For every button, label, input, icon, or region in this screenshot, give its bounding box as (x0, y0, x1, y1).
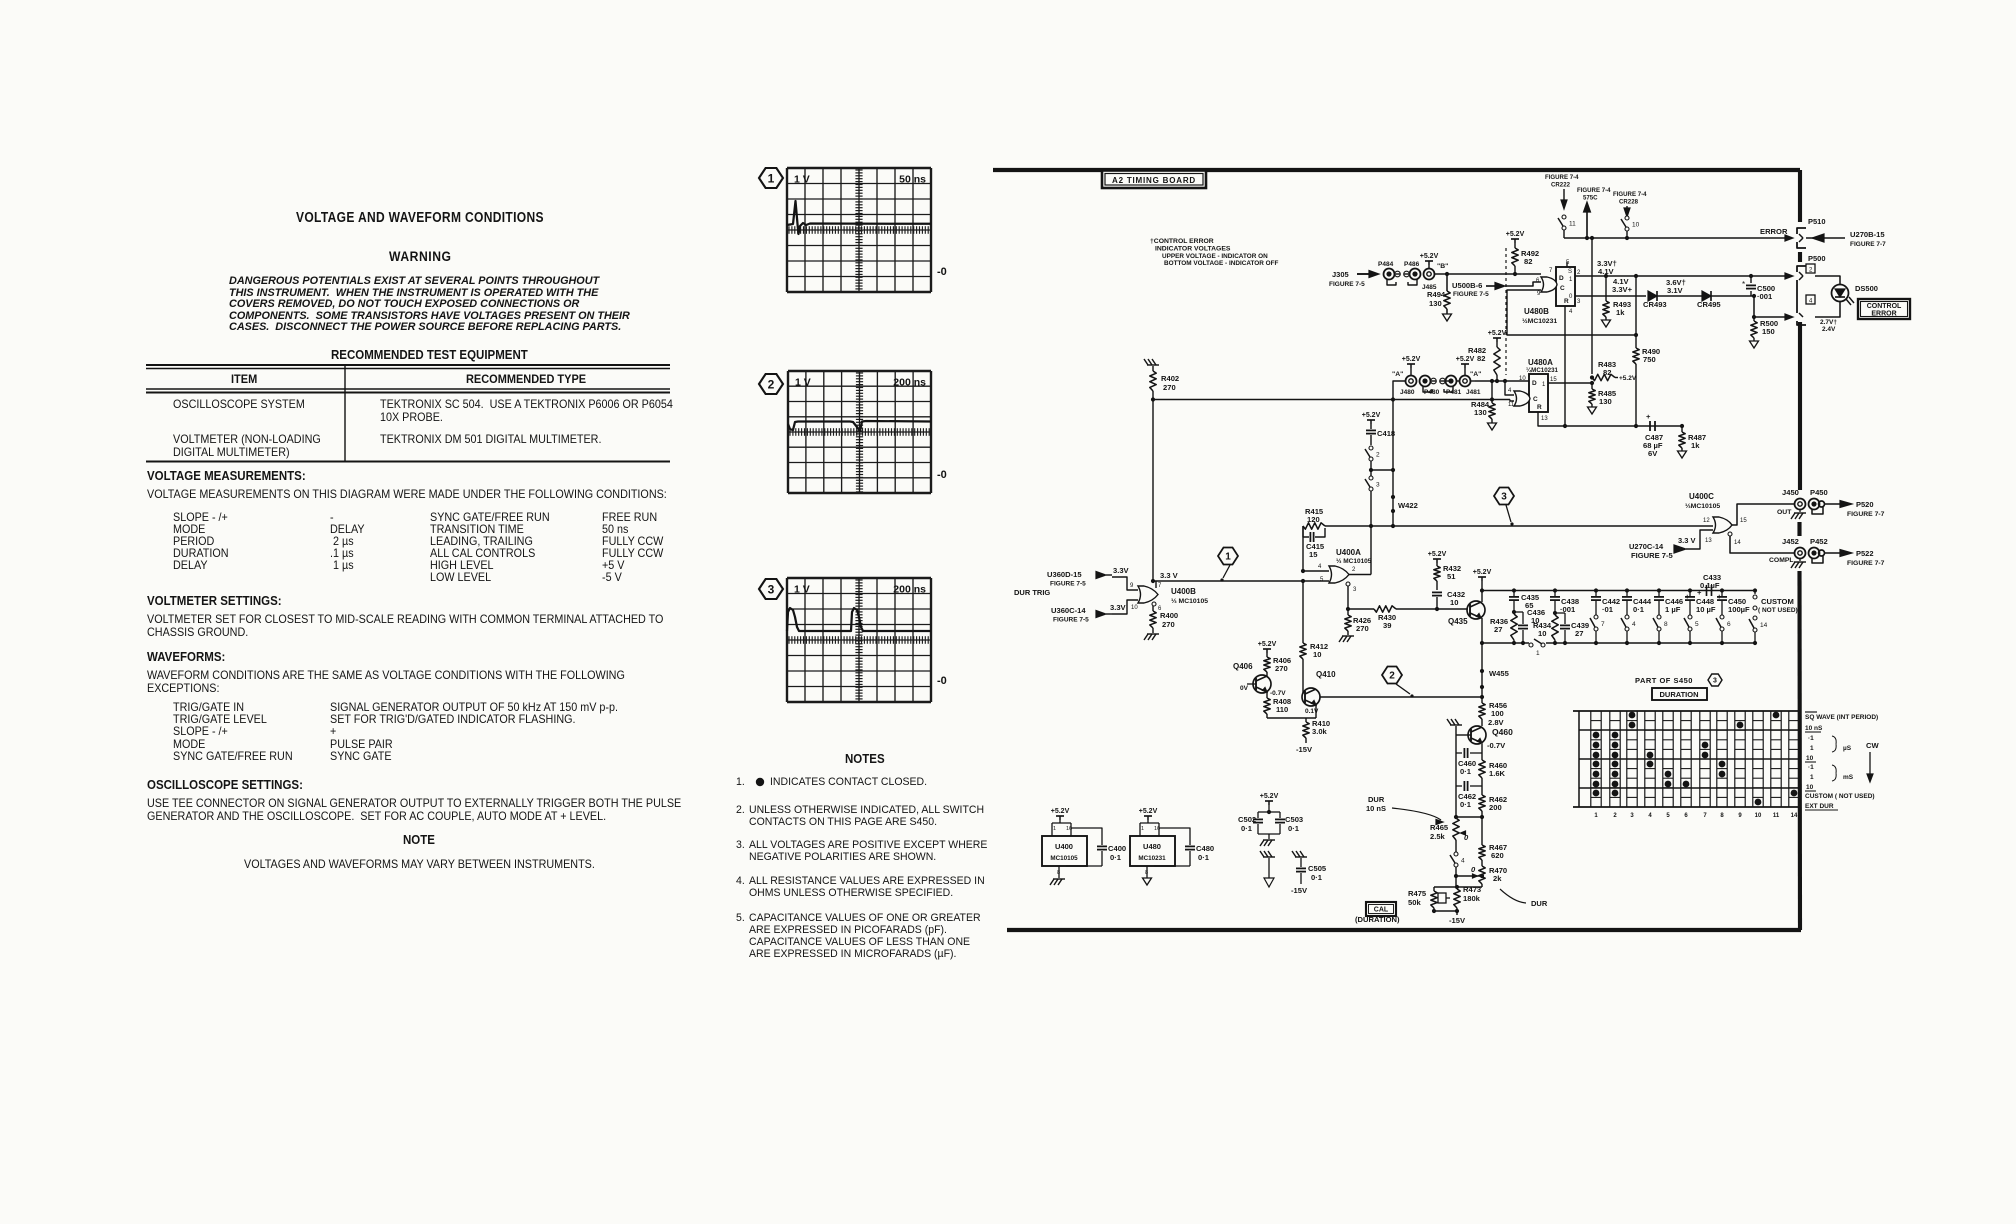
svg-text:Q410: Q410 (1316, 670, 1336, 679)
wire ERROR to P510 (1564, 237, 1786, 239)
svg-text:-15V: -15V (1449, 916, 1466, 925)
switch matrix S450 (1573, 710, 1800, 712)
waveform exceptions list (173, 702, 244, 714)
svg-text:+5.2V: +5.2V (1456, 356, 1475, 363)
svg-text:-0: -0 (937, 675, 947, 687)
svg-text:-0: -0 (937, 266, 947, 278)
capacitor C505 0.1 (1292, 851, 1296, 857)
capacitor C462 0.1 (1456, 785, 1462, 787)
svg-text:7: 7 (1703, 813, 1707, 819)
svg-text:R475: R475 (1408, 889, 1427, 898)
svg-text:R473: R473 (1463, 885, 1481, 894)
svg-text:100µF: 100µF (1728, 605, 1750, 614)
svg-text:U500B-6: U500B-6 (1452, 281, 1482, 290)
or-gate U400B (1138, 586, 1158, 603)
connector pair P480 P481 (1420, 376, 1431, 387)
potentiometer R470 2k (1479, 866, 1485, 884)
svg-text:51: 51 (1447, 572, 1456, 581)
resistor R410 3.0k (1305, 718, 1307, 722)
gate complement pin 14 (1728, 532, 1732, 536)
note 1 bullet (756, 778, 764, 786)
svg-text:1: 1 (1594, 813, 1598, 819)
svg-text:0.1V: 0.1V (1305, 708, 1319, 715)
svg-text:+5.2V: +5.2V (1428, 551, 1447, 558)
wire CR495 to C500 node (1711, 295, 1754, 297)
svg-text:7: 7 (1158, 583, 1162, 589)
svg-text:5: 5 (1666, 813, 1670, 819)
svg-text:⅓MC10105: ⅓MC10105 (1685, 503, 1720, 510)
jumper W422 (1392, 400, 1394, 527)
resistor R487 1k (1681, 426, 1683, 432)
svg-text:150: 150 (1762, 327, 1775, 336)
svg-text:"A": "A" (1470, 371, 1481, 378)
svg-text:2: 2 (768, 377, 775, 391)
svg-text:1: 1 (1810, 745, 1814, 752)
signal arrow P522 FIGURE 7-7 (1825, 552, 1840, 554)
svg-text:ERROR: ERROR (1871, 311, 1896, 318)
warning paragraph (229, 276, 599, 287)
svg-text:120: 120 (1307, 515, 1320, 524)
svg-text:R: R (1537, 404, 1542, 411)
connector J485 (1424, 269, 1435, 280)
svg-text:27: 27 (1575, 629, 1583, 638)
svg-text:3.3 V: 3.3 V (1678, 536, 1696, 545)
svg-text:3.0k: 3.0k (1312, 727, 1328, 736)
svg-text:CONTROL: CONTROL (1867, 303, 1902, 310)
svg-text:1: 1 (768, 171, 775, 185)
IC U480 MC10231 (bypass) (1147, 820, 1149, 823)
capacitor C418 (1370, 424, 1372, 429)
schematic frame: bottom border (1007, 928, 1801, 932)
svg-text:+5.2V: +5.2V (1420, 253, 1439, 260)
jumper W455 (1481, 643, 1483, 697)
svg-text:2.7V†: 2.7V† (1820, 319, 1837, 326)
svg-text:130: 130 (1474, 408, 1487, 417)
heading VOLTMETER SETTINGS (147, 595, 282, 608)
svg-text:0·1: 0·1 (1241, 824, 1253, 833)
svg-text:EXT DUR: EXT DUR (1805, 803, 1834, 810)
svg-text:FIGURE 7-7: FIGURE 7-7 (1847, 560, 1885, 567)
svg-text:P452: P452 (1810, 537, 1828, 546)
wire U480B pin2 output (1575, 275, 1790, 277)
note 5 (736, 913, 745, 924)
svg-text:11: 11 (1773, 813, 1780, 819)
svg-text:620: 620 (1491, 851, 1504, 860)
svg-text:+5.2V: +5.2V (1619, 375, 1637, 382)
svg-text:1 V: 1 V (794, 174, 810, 186)
svg-text:2k: 2k (1493, 874, 1502, 883)
svg-text:1: 1 (1225, 552, 1231, 563)
capacitor C500 .001 (1750, 276, 1752, 283)
svg-text:4: 4 (1318, 564, 1322, 570)
svg-text:U480B: U480B (1524, 307, 1549, 316)
svg-text:0.1µF: 0.1µF (1700, 581, 1720, 590)
switch contact 10 (1625, 216, 1629, 220)
svg-text:6: 6 (1727, 621, 1731, 628)
svg-text:2: 2 (1376, 452, 1380, 459)
svg-text:C: C (1560, 285, 1565, 292)
svg-text:6V: 6V (1648, 449, 1658, 458)
svg-text:6: 6 (1684, 813, 1688, 819)
net: vertical from ERROR wire to R483 node (1591, 238, 1593, 374)
wire pin2 output (1349, 574, 1371, 576)
switch contact 2 (1369, 446, 1373, 450)
svg-text:C: C (1533, 396, 1538, 403)
svg-text:+5.2V: +5.2V (1488, 330, 1507, 337)
capacitor C502 0.1 (1268, 805, 1270, 812)
svg-text:10: 10 (1450, 598, 1458, 607)
resistor R467 620 (1481, 817, 1483, 845)
ground (R484) (1488, 423, 1497, 430)
svg-text:1: 1 (1810, 774, 1814, 781)
capacitor C503 0.1 (1269, 811, 1280, 813)
svg-text:PART OF S450: PART OF S450 (1635, 676, 1693, 685)
waveform scope 2 (787, 371, 789, 493)
note 3 (736, 840, 745, 851)
svg-text:"A": "A" (1392, 371, 1403, 378)
svg-text:U360D-15: U360D-15 (1047, 570, 1082, 579)
svg-text:MC10231: MC10231 (1138, 855, 1166, 862)
svg-text:0·1: 0·1 (1198, 853, 1210, 862)
wire bottom rail (1480, 641, 1484, 645)
wire Q410 base from Q406 (1267, 696, 1305, 698)
svg-text:INDICATOR VOLTAGES: INDICATOR VOLTAGES (1155, 246, 1231, 253)
capacitor C442 ·01 (1595, 591, 1597, 597)
svg-text:100: 100 (1491, 709, 1504, 718)
svg-text:C502: C502 (1238, 815, 1256, 824)
capacitor C435 65 (1513, 591, 1515, 597)
svg-text:12: 12 (1703, 518, 1710, 524)
switch contact 4 (1625, 615, 1629, 619)
svg-text:82: 82 (1477, 354, 1485, 363)
svg-text:11: 11 (1569, 221, 1576, 228)
waveform scope 3 (786, 578, 788, 702)
resistor R436 zigzag (1511, 614, 1517, 640)
capacitor C487 68uF (1649, 421, 1651, 431)
signal arrow U270B-15 FIGURE 7-7 (1806, 237, 1845, 239)
svg-text:"B": "B" (1437, 263, 1448, 270)
resistor R430 39 (1374, 606, 1396, 612)
svg-text:3: 3 (1713, 678, 1717, 685)
svg-text:10: 10 (1806, 784, 1814, 791)
svg-text:15: 15 (1740, 518, 1747, 524)
svg-text:+5.2V: +5.2V (1258, 641, 1277, 648)
svg-text:J305: J305 (1332, 270, 1349, 279)
svg-text:1k: 1k (1691, 441, 1700, 450)
svg-text:4: 4 (1648, 813, 1652, 819)
schematic frame: right border (board edge, dashed at connectors) (1798, 170, 1802, 222)
svg-text:U400A: U400A (1336, 548, 1361, 557)
svg-text:+5.2V: +5.2V (1506, 231, 1525, 238)
svg-text:ERROR: ERROR (1760, 227, 1788, 236)
wire R430 to Q435 base (1396, 608, 1468, 610)
svg-text:Q435: Q435 (1448, 617, 1468, 626)
svg-text:270: 270 (1275, 664, 1288, 673)
svg-text:2.5k: 2.5k (1430, 832, 1446, 841)
wire feedback node W422 to R415 (1325, 525, 1371, 527)
svg-text:J450: J450 (1782, 488, 1799, 497)
heading OSCILLOSCOPE SETTINGS (147, 779, 303, 792)
svg-text:0·1: 0·1 (1460, 767, 1472, 776)
capacitor C436 10 (1514, 611, 1523, 613)
wire U500B-6 to U480B clock gate (1505, 282, 1541, 286)
wire pin3 to R430 (1348, 586, 1374, 609)
wire Q435 emitter down (1481, 618, 1483, 643)
chassis ground (R426) (1339, 636, 1343, 642)
switch contact 1 (in rail) (1529, 643, 1533, 647)
wire U480A pin15 output (1548, 382, 1592, 384)
svg-text:C480: C480 (1196, 844, 1214, 853)
wire R470 bottom to R473 (1457, 886, 1482, 888)
switch contact 6 (1720, 615, 1724, 619)
svg-text:4.1V: 4.1V (1598, 267, 1615, 276)
capacitor C438 .001 (1554, 591, 1556, 597)
svg-text:270: 270 (1162, 620, 1175, 629)
svg-text:7: 7 (1601, 621, 1605, 628)
svg-text:†CONTROL ERROR: †CONTROL ERROR (1150, 238, 1214, 245)
wire R402 node down to U400B junction (1152, 400, 1154, 582)
heading RECOMMENDED TEST EQUIPMENT (331, 349, 528, 362)
svg-text:W455: W455 (1489, 669, 1510, 678)
svg-text:0·1: 0·1 (1110, 853, 1122, 862)
svg-text:DUR: DUR (1368, 795, 1385, 804)
svg-text:W422: W422 (1398, 501, 1418, 510)
svg-text:10: 10 (1632, 222, 1640, 229)
svg-text:-15V: -15V (1296, 745, 1313, 754)
capacitor C460 0.1 (1456, 752, 1462, 754)
svg-text:9: 9 (1130, 583, 1134, 589)
svg-text:(DURATION): (DURATION) (1355, 915, 1400, 924)
ground (R494) (1443, 314, 1452, 321)
resistor R485 130 (1591, 383, 1593, 389)
capacitor C450 100µF (1721, 591, 1723, 597)
svg-text:10: 10 (1538, 629, 1546, 638)
resistor R494 130 (1446, 274, 1448, 291)
resistor R482 82 (1496, 342, 1498, 347)
svg-text:10: 10 (1755, 813, 1762, 819)
wire sw2/sw3 junction to W422 net (1371, 469, 1393, 471)
svg-text:-0.7V: -0.7V (1487, 741, 1506, 750)
svg-text:82: 82 (1524, 257, 1532, 266)
signal arrow P520 FIGURE 7-7 (1825, 503, 1840, 505)
svg-text:FIGURE 7-4: FIGURE 7-4 (1577, 187, 1611, 194)
svg-text:+: + (1685, 592, 1690, 601)
potentiometer R465 2.5k (1455, 816, 1457, 818)
svg-text:2: 2 (1352, 567, 1356, 573)
svg-text:16: 16 (1154, 826, 1160, 832)
svg-text:14: 14 (1760, 622, 1768, 629)
svg-text:270: 270 (1356, 624, 1369, 633)
wire R415 left to gate input 4 (1302, 526, 1304, 571)
wire U360C to gate input 10 (1112, 600, 1138, 614)
svg-text:mS: mS (1843, 774, 1854, 781)
svg-text:4: 4 (1508, 388, 1512, 394)
gate complement output pin 3 (1346, 582, 1350, 586)
svg-text:0: 0 (1471, 865, 1476, 874)
resistor R484 130 (1491, 381, 1493, 400)
svg-text:200: 200 (1489, 803, 1502, 812)
LED DS500 (1815, 276, 1840, 285)
resistor R492 82 (1514, 243, 1516, 248)
svg-text:C400: C400 (1108, 844, 1126, 853)
svg-text:-15V: -15V (1291, 886, 1308, 895)
svg-text:0·1: 0·1 (1311, 873, 1323, 882)
svg-text:µS: µS (1843, 745, 1852, 752)
svg-text:·1: ·1 (1808, 764, 1814, 771)
svg-text:10: 10 (1131, 605, 1138, 611)
svg-text:7: 7 (1549, 268, 1553, 274)
svg-text:J452: J452 (1782, 537, 1799, 546)
svg-text:3: 3 (1630, 813, 1634, 819)
wire J481 to D input (1471, 380, 1476, 382)
svg-text:·01: ·01 (1602, 605, 1614, 614)
svg-text:2.8V: 2.8V (1488, 718, 1505, 727)
svg-text:1 V: 1 V (795, 377, 811, 389)
svg-text:U400C: U400C (1689, 492, 1714, 501)
diode CR493 (1648, 291, 1657, 301)
transistor Q410 (1302, 688, 1320, 706)
svg-text:200 ns: 200 ns (893, 584, 926, 596)
svg-text:+: + (1646, 412, 1651, 421)
svg-text:CUSTOM ( NOT USED): CUSTOM ( NOT USED) (1805, 793, 1875, 800)
svg-text:50 ns: 50 ns (899, 174, 926, 186)
wire Q410 collector to hex2 net (1320, 696, 1482, 698)
svg-text:( NOT USED): ( NOT USED) (1758, 607, 1798, 614)
capacitor C400 0.1 (1071, 828, 1102, 845)
svg-text:-0.7V: -0.7V (1270, 690, 1286, 697)
svg-text:U270C-14: U270C-14 (1629, 542, 1664, 551)
svg-text:FIGURE 7-5: FIGURE 7-5 (1453, 291, 1489, 298)
svg-text:1k: 1k (1616, 308, 1625, 317)
svg-text:Q406: Q406 (1233, 662, 1253, 671)
svg-text:10 nS: 10 nS (1366, 804, 1386, 813)
resistor R415 120 (1303, 523, 1325, 529)
resistor R412 10 (1301, 579, 1305, 583)
bracket uS group (1832, 736, 1836, 752)
wire R408 to Q410 emitter node (1267, 717, 1316, 719)
or-gate U400C (1713, 517, 1732, 533)
wire +5.2V top rail (1480, 588, 1484, 592)
svg-text:R400: R400 (1160, 611, 1178, 620)
svg-text:3: 3 (768, 582, 775, 596)
svg-text:DUR: DUR (1531, 899, 1548, 908)
matrix closed contacts (dots) (1593, 732, 1600, 739)
gate output pin 6 (NOR) to R400 (1152, 602, 1156, 606)
ground (R493) (1602, 320, 1611, 327)
svg-text:FIGURE 7-7: FIGURE 7-7 (1850, 241, 1886, 248)
svg-text:COMPL: COMPL (1769, 557, 1794, 564)
svg-text:15: 15 (1309, 550, 1318, 559)
flip-flop U480B (1556, 267, 1575, 306)
wire long 3.3V net to U400A (1153, 580, 1329, 582)
note 1 (736, 777, 745, 788)
waveform callout hexagon 3 (1494, 488, 1514, 505)
or-gate U480A clock (1514, 391, 1530, 406)
resistor R456 100 (1481, 697, 1483, 703)
svg-text:6: 6 (1536, 278, 1540, 284)
svg-text:4: 4 (1632, 621, 1636, 628)
svg-text:1.6K: 1.6K (1489, 769, 1506, 778)
off-board arrow symbol (1260, 851, 1264, 857)
svg-text:D: D (1532, 380, 1537, 387)
transistor Q406 (1253, 675, 1271, 693)
capacitor C439 27 (1555, 612, 1565, 614)
svg-text:U360C-14: U360C-14 (1051, 606, 1086, 615)
resistor R493 1k (1605, 276, 1607, 301)
label box CAL (DURATION) (1366, 902, 1396, 916)
svg-text:13: 13 (1541, 416, 1548, 422)
svg-text:1: 1 (1141, 826, 1144, 832)
label box DURATION (1652, 688, 1707, 700)
svg-text:CAL: CAL (1374, 907, 1389, 914)
switch contact 3 (1370, 470, 1372, 476)
wire U480B pin3 output (1575, 295, 1646, 297)
wire U270C to gate input 13 (1686, 530, 1713, 549)
svg-text:3: 3 (1376, 482, 1380, 489)
switch contact 5 (1688, 615, 1692, 619)
IC U400 MC10105 (bypass) (1059, 820, 1061, 823)
resistor R434 10 (1552, 615, 1558, 640)
title box A2 TIMING BOARD (1102, 171, 1206, 189)
svg-text:S: S (1568, 269, 1572, 275)
capacitor C448 10 µF (1689, 591, 1691, 597)
svg-text:39: 39 (1383, 621, 1391, 630)
heading WARNING (389, 250, 452, 264)
transistor Q435 (1467, 601, 1485, 619)
svg-text:*: * (1742, 280, 1745, 289)
svg-text:3.3V: 3.3V (1113, 566, 1130, 575)
svg-text:10: 10 (1313, 650, 1321, 659)
svg-text:130: 130 (1599, 397, 1612, 406)
wire gate output pin 7 up to 3.3V net (1155, 581, 1157, 588)
svg-text:2.4V: 2.4V (1822, 326, 1836, 333)
note 2 (736, 805, 745, 816)
svg-text:DS500: DS500 (1855, 284, 1878, 293)
wire C500 node to P500 pin4 (1754, 296, 1790, 317)
svg-text:+5.2V: +5.2V (1260, 793, 1279, 800)
svg-text:3.3V: 3.3V (1110, 603, 1127, 612)
capacitor C444 0·1 (1626, 591, 1628, 597)
wire U480B pin4 down (1564, 306, 1566, 426)
resistor R426 270 (1345, 615, 1351, 631)
svg-text:MC10105: MC10105 (1050, 855, 1078, 862)
svg-text:Q460: Q460 (1492, 727, 1513, 737)
svg-text:130: 130 (1429, 299, 1442, 308)
svg-text:27: 27 (1494, 625, 1502, 634)
svg-text:16: 16 (1066, 826, 1072, 832)
svg-text:FIGURE 7-5: FIGURE 7-5 (1053, 617, 1089, 624)
svg-text:SQ WAVE (INT PERIOD): SQ WAVE (INT PERIOD) (1805, 714, 1878, 721)
svg-text:575C: 575C (1583, 195, 1598, 202)
heading VOLTAGE MEASUREMENTS (147, 470, 306, 483)
svg-text:P522: P522 (1856, 549, 1874, 558)
svg-text:P500: P500 (1808, 254, 1826, 263)
svg-text:14: 14 (1734, 540, 1741, 546)
resistor R432 51 (1436, 563, 1438, 566)
svg-text:1: 1 (1536, 650, 1540, 657)
svg-text:3: 3 (1577, 299, 1581, 305)
svg-text:P450: P450 (1810, 488, 1828, 497)
svg-text:FIGURE 7-5: FIGURE 7-5 (1329, 281, 1365, 288)
switch contact 11 (1562, 215, 1566, 219)
resistor R490 750 (1635, 276, 1637, 348)
svg-text:J481: J481 (1466, 389, 1481, 396)
svg-text:⅓ MC10105: ⅓ MC10105 (1336, 558, 1372, 565)
waveform callout hexagon 1 (1218, 548, 1238, 565)
svg-text:U480: U480 (1143, 842, 1161, 851)
svg-text:CR493: CR493 (1643, 300, 1667, 309)
svg-text:⅓ MC10105: ⅓ MC10105 (1171, 598, 1208, 605)
